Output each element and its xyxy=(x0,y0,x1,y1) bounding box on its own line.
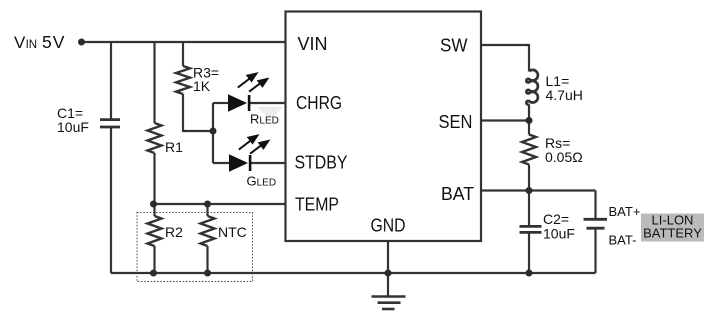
svg-text:R1: R1 xyxy=(165,139,183,155)
svg-text:BAT: BAT xyxy=(441,184,474,204)
svg-text:SW: SW xyxy=(440,36,468,56)
svg-text:4.7uH: 4.7uH xyxy=(546,87,583,103)
svg-text:NTC: NTC xyxy=(218,224,247,240)
svg-text:SEN: SEN xyxy=(439,112,473,132)
svg-text:1K: 1K xyxy=(193,78,211,94)
svg-text:GND: GND xyxy=(371,216,406,236)
svg-text:VIN: VIN xyxy=(298,34,328,54)
svg-text:BAT-: BAT- xyxy=(609,233,637,248)
svg-text:TEMP: TEMP xyxy=(295,195,339,215)
svg-text:BATTERY: BATTERY xyxy=(643,226,702,241)
svg-text:BAT+: BAT+ xyxy=(609,204,641,219)
svg-text:10uF: 10uF xyxy=(543,226,575,242)
svg-text:CHRG: CHRG xyxy=(296,93,342,113)
svg-text:R2: R2 xyxy=(165,224,183,240)
svg-text:STDBY: STDBY xyxy=(295,153,348,173)
svg-text:0.05Ω: 0.05Ω xyxy=(545,149,583,165)
svg-text:10uF: 10uF xyxy=(57,119,89,135)
